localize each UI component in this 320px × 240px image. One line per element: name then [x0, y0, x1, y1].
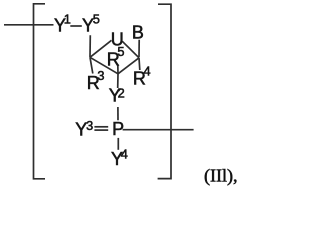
svg-text:3: 3	[97, 68, 104, 83]
bond ring-B	[138, 40, 140, 57]
bond Y2-P	[117, 107, 119, 120]
attachment bond left	[4, 24, 54, 26]
double bond Y3=P lower	[94, 129, 108, 131]
atom label Y1	[54, 12, 71, 36]
svg-text:(IIl),: (IIl),	[204, 166, 238, 187]
bond Y1-Y5	[70, 25, 82, 27]
bond Y5-ring	[89, 35, 91, 57]
double bond Y3=P upper	[94, 126, 108, 128]
bond ring-R3	[90, 57, 93, 73]
atom label R3	[87, 68, 105, 93]
bond ring-R4	[138, 58, 141, 70]
ring bond U-left vertex	[90, 40, 112, 57]
bond ring-R5	[117, 64, 119, 74]
svg-text:5: 5	[93, 12, 100, 27]
ring bond right-bottom vertex	[118, 58, 139, 74]
svg-text:5: 5	[117, 44, 124, 59]
svg-text:4: 4	[144, 64, 151, 79]
svg-text:2: 2	[118, 86, 125, 101]
atom label Y2	[109, 86, 125, 106]
right bracket	[158, 4, 171, 178]
svg-text:1: 1	[64, 12, 71, 27]
bond P-right attachment	[123, 129, 194, 131]
svg-text:4: 4	[121, 147, 128, 162]
ring bond U-right vertex	[122, 41, 139, 58]
ring bond left-bottom vertex	[90, 57, 118, 74]
left bracket	[34, 4, 46, 179]
svg-text:P: P	[112, 119, 124, 139]
bond ring-Y2	[117, 74, 119, 88]
svg-text:3: 3	[86, 118, 93, 133]
atom label Y3	[75, 118, 93, 139]
atom label R4	[133, 64, 151, 89]
svg-text:B: B	[132, 22, 144, 42]
atom label R5	[107, 44, 125, 70]
bond P-Y4	[117, 138, 119, 150]
atom label Y5	[82, 12, 100, 36]
atom label Y4	[111, 147, 128, 170]
